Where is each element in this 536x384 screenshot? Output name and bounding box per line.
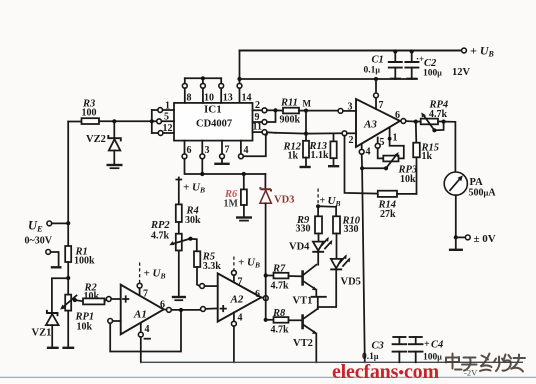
transistor VT1 — [293, 265, 326, 307]
node +UB stub for R9/R10 — [316, 189, 340, 209]
svg-text:± 0V: ± 0V — [474, 233, 496, 245]
svg-text:7: 7 — [225, 145, 230, 156]
node A2 output pin 6 — [255, 289, 268, 301]
wire left column from R3 down to UE — [67, 122, 69, 224]
svg-text:+ UB: + UB — [183, 182, 205, 195]
svg-text:0.1μ: 0.1μ — [364, 66, 381, 76]
pin 10 — [201, 78, 215, 103]
potentiometer RP1 — [60, 295, 94, 348]
svg-text:1M: 1M — [224, 199, 239, 210]
svg-text:100: 100 — [82, 108, 97, 119]
svg-text:C2: C2 — [424, 58, 437, 69]
pin 14 — [237, 83, 251, 103]
terminal +-0V — [449, 195, 496, 250]
pin 9 IC right — [253, 112, 276, 124]
svg-text:M: M — [303, 99, 312, 109]
svg-text:VZ1: VZ1 — [32, 328, 52, 339]
node R1/RP1/VZ1 junction — [66, 276, 70, 280]
svg-text:VZ2: VZ2 — [86, 134, 106, 145]
svg-text:+ UB: + UB — [238, 257, 260, 270]
transistor VT2 — [293, 297, 318, 362]
pin 11 IC right — [253, 122, 276, 135]
svg-text:C1: C1 — [372, 55, 384, 66]
pin 7 A2 with +UB dashed — [232, 257, 260, 288]
pin 3 IC bottom — [200, 141, 210, 159]
svg-text:elecfans●com: elecfans●com — [332, 361, 439, 383]
svg-text:UE: UE — [28, 219, 43, 234]
resistor R9 — [296, 206, 323, 241]
separator line — [0, 376, 536, 378]
node A3 output pin 6 — [395, 110, 418, 124]
svg-text:4.7k: 4.7k — [151, 230, 170, 241]
pin 12 — [152, 123, 174, 135]
svg-text:6: 6 — [160, 300, 165, 311]
capacitor C2 (polarized) — [405, 49, 442, 79]
svg-text:11: 11 — [253, 122, 262, 133]
svg-text:2: 2 — [255, 100, 260, 111]
svg-text:10k: 10k — [77, 322, 93, 333]
wire IC pins 6,3 bottom bus — [185, 159, 266, 176]
node A1 output — [160, 300, 201, 313]
resistor R3 — [68, 99, 152, 125]
wire input bus to pins 1,5,12 — [150, 110, 154, 133]
LED VD5 — [318, 254, 361, 307]
resistor R7 — [266, 264, 303, 292]
svg-text:4.7k: 4.7k — [271, 325, 290, 336]
pin 4 A3 — [359, 144, 370, 168]
svg-text:CD4007: CD4007 — [196, 119, 232, 130]
resistor R4 — [176, 204, 201, 233]
svg-text:4: 4 — [145, 324, 150, 335]
svg-text:+: + — [320, 196, 326, 207]
svg-text:14: 14 — [242, 93, 252, 104]
svg-text:8: 8 — [187, 93, 192, 104]
pin 4 A2 — [232, 312, 243, 362]
node R3/VZ2 junction — [112, 119, 116, 123]
wire rail drop to IC pin 14 — [237, 51, 241, 103]
potentiometer RP3 — [360, 152, 417, 185]
LED VD4 — [289, 237, 332, 265]
svg-text:RP2: RP2 — [150, 220, 170, 231]
pin 4 A1 — [138, 323, 150, 363]
svg-text:100μ: 100μ — [423, 69, 442, 79]
svg-text:IC1: IC1 — [204, 104, 222, 116]
pin 7 IC bottom with ground — [214, 141, 229, 164]
svg-text:4: 4 — [238, 313, 243, 324]
resistor R11 — [276, 98, 339, 126]
pin 5 — [152, 112, 174, 124]
svg-text:6: 6 — [395, 110, 400, 121]
svg-text:VD5: VD5 — [341, 277, 361, 288]
resistor R13 — [309, 133, 340, 166]
op-amp A1 — [121, 285, 164, 335]
svg-text:10k: 10k — [84, 291, 100, 302]
svg-text:7: 7 — [238, 277, 243, 288]
svg-text:PA: PA — [470, 177, 484, 188]
svg-text:7: 7 — [379, 100, 384, 111]
svg-text:2: 2 — [349, 135, 354, 146]
pin 1 — [152, 101, 174, 113]
resistor R5 feeding A2 inverting input — [191, 239, 222, 289]
resistor R8 — [266, 308, 303, 336]
wire R11 to R12/R13 bus — [276, 111, 343, 141]
node R11 right junction — [304, 109, 308, 113]
capacitor C3 — [362, 337, 406, 362]
svg-text:A2: A2 — [230, 294, 244, 306]
svg-text:3.3k: 3.3k — [203, 261, 222, 272]
svg-text:3: 3 — [348, 102, 353, 113]
svg-text:1.1k: 1.1k — [311, 150, 330, 161]
svg-text:1k: 1k — [288, 151, 299, 162]
pin 4 IC bottom — [239, 132, 268, 159]
wire bottom negative rail — [140, 361, 523, 363]
watermark 电子发烧友 — [446, 354, 526, 372]
svg-text:12: 12 — [163, 123, 173, 134]
svg-text:4: 4 — [366, 147, 371, 158]
pin 6 IC bottom — [182, 141, 191, 159]
svg-text:VD3: VD3 — [274, 195, 294, 206]
resistor R14 — [378, 191, 417, 220]
potentiometer RP4 — [416, 100, 448, 133]
node +UB top rail — [240, 44, 495, 79]
resistor R12 — [283, 141, 311, 167]
svg-text:12V: 12V — [452, 67, 471, 78]
capacitor C4 (polarized) — [409, 337, 443, 363]
svg-text:3: 3 — [205, 145, 210, 156]
pin 7 A3 riser to 0V line — [374, 77, 384, 111]
meter PA 500uA — [444, 172, 496, 199]
pin 13 — [219, 78, 233, 103]
svg-text:4: 4 — [244, 145, 249, 156]
resistor R10 — [318, 206, 361, 258]
svg-text:1: 1 — [393, 133, 398, 144]
wire A1 feedback loop — [108, 312, 181, 351]
svg-text:R7: R7 — [272, 264, 286, 275]
svg-text:0~30V: 0~30V — [25, 236, 53, 247]
svg-text:R11: R11 — [280, 98, 298, 109]
svg-text:13: 13 — [223, 93, 233, 104]
svg-text:C4: C4 — [431, 340, 443, 351]
svg-text:+ UB: + UB — [470, 44, 495, 59]
svg-text:4.7k: 4.7k — [271, 281, 290, 292]
wire to A2 noninverting input — [201, 307, 218, 312]
wire 0V second line — [240, 78, 418, 80]
svg-text:6: 6 — [187, 145, 192, 156]
svg-text:900k: 900k — [280, 115, 301, 126]
svg-text:1: 1 — [165, 101, 170, 112]
svg-text:A1: A1 — [133, 309, 147, 321]
svg-text:1k: 1k — [422, 151, 433, 162]
pin 2 IC right — [253, 100, 276, 113]
resistor R6 — [224, 174, 253, 221]
op-amp A2 — [218, 273, 262, 321]
wire RP4 to meter — [444, 122, 456, 172]
svg-text:100k: 100k — [74, 256, 95, 267]
svg-text:+ UB: + UB — [144, 268, 166, 281]
svg-text:VD4: VD4 — [289, 242, 310, 253]
svg-text:7: 7 — [143, 289, 148, 300]
resistor R1 — [65, 223, 95, 294]
wire branch to VZ1 — [52, 278, 68, 312]
wire A2 output node column joints — [264, 273, 268, 322]
node pins 2+9 junction — [273, 108, 277, 112]
svg-text:330: 330 — [344, 224, 359, 235]
wire RP3 wiper column down to bottom rail — [362, 168, 365, 362]
svg-text:R8: R8 — [272, 308, 286, 319]
svg-text:C3: C3 — [372, 341, 384, 352]
svg-text:330: 330 — [296, 224, 311, 235]
svg-text:+: + — [424, 339, 430, 350]
resistor R2 — [75, 283, 107, 305]
svg-text:10: 10 — [204, 93, 214, 104]
pin 3 A3 — [338, 102, 356, 114]
pin 8 — [182, 78, 191, 103]
svg-text:A3: A3 — [363, 119, 377, 131]
zener VZ1 — [32, 311, 59, 348]
svg-text:5: 5 — [164, 112, 169, 123]
svg-text:VT2: VT2 — [293, 338, 313, 349]
svg-text:27k: 27k — [380, 209, 396, 220]
wire A3 pin2 feedback down to R14 — [345, 136, 378, 194]
svg-text:30k: 30k — [185, 215, 201, 226]
node A1 noninverting input — [106, 297, 120, 302]
pin 7 A1 with +UB dashed — [137, 263, 165, 300]
terminal UE input — [25, 219, 71, 247]
pin 2 A3 — [342, 131, 356, 146]
terminal UE return with ground — [46, 250, 62, 268]
zener VZ2 — [86, 121, 123, 168]
svg-text:·+: ·+ — [416, 54, 424, 64]
pin 5 A3 — [375, 137, 384, 158]
svg-text:500μA: 500μA — [469, 188, 497, 199]
capacitor C1 — [364, 49, 402, 79]
svg-text:6: 6 — [255, 289, 260, 300]
svg-text:5: 5 — [380, 137, 385, 148]
wire tying pins 8,10,13 — [185, 76, 221, 80]
resistor R15 — [413, 122, 439, 194]
svg-text:VT1: VT1 — [293, 296, 313, 307]
svg-text:4.7k: 4.7k — [429, 109, 448, 120]
potentiometer RP2 — [150, 220, 193, 300]
node +UB stub for R4 — [176, 178, 205, 205]
diode VD3 (zener, red) — [260, 174, 295, 274]
svg-text:10k: 10k — [400, 174, 416, 185]
op-amp A3 — [356, 99, 400, 147]
IC U1 IC1 CD4007 body — [174, 103, 253, 141]
pin 1 A3 — [388, 127, 404, 158]
